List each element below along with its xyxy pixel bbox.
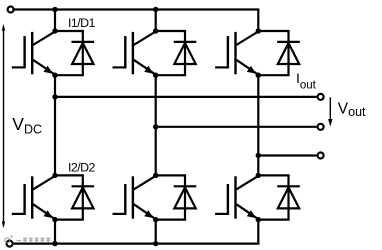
junction phase3 tap xyxy=(256,153,261,158)
Vout direction arrow xyxy=(329,97,331,120)
wire stub rail to I1 collector xyxy=(54,10,56,32)
junction leg3 lower collector node xyxy=(256,173,261,178)
diode D1 xyxy=(55,31,94,75)
wire stub leg2 emitter to bottom rail xyxy=(155,220,157,244)
diode D2 xyxy=(55,175,94,219)
junction leg3 collector node xyxy=(256,28,261,33)
wire stub rail to leg2 collector xyxy=(155,10,157,32)
junction I2 emitter node xyxy=(52,217,57,222)
VDC dimension arrow up xyxy=(2,24,5,31)
diode D5 xyxy=(258,31,300,75)
wire stub leg1 emitter to bottom rail xyxy=(54,220,56,244)
junction top rail leg2 xyxy=(153,7,158,12)
diode D3 xyxy=(156,31,197,75)
terminal DC+ xyxy=(8,7,14,13)
junction leg3 lower emitter node xyxy=(256,217,261,222)
svg-text:I1/D1: I1/D1 xyxy=(68,16,96,30)
junction bottom rail leg1 xyxy=(52,241,57,246)
VDC dimension arrow down xyxy=(2,222,5,229)
IGBT I6 xyxy=(215,176,258,219)
terminal phase 2 xyxy=(318,124,324,130)
wire bottom rail rise to leg3 xyxy=(257,220,259,244)
junction I2 collector node xyxy=(52,173,57,178)
terminal phase 3 xyxy=(318,153,324,159)
IGBT I2 xyxy=(12,176,55,219)
watermark xyxy=(5,236,50,243)
junction top rail leg1 xyxy=(52,7,57,12)
IGBT I5 xyxy=(215,32,258,75)
junction leg2 collector node xyxy=(153,28,158,33)
wire top DC rail xyxy=(14,8,260,10)
junction I1 collector node xyxy=(52,28,57,33)
IGBT I4 xyxy=(113,176,156,219)
wire leg2 midpoint vertical xyxy=(155,75,157,175)
junction I1 emitter node xyxy=(52,73,57,78)
terminal phase 1 xyxy=(318,94,324,100)
svg-text:I2/D2: I2/D2 xyxy=(68,161,96,175)
IGBT I1 xyxy=(12,32,55,75)
wire phase output 2 xyxy=(156,126,317,128)
junction phase2 tap xyxy=(153,124,158,129)
wire leg1 midpoint vertical xyxy=(54,75,56,175)
wire bottom DC rail xyxy=(13,243,260,245)
junction phase1 tap xyxy=(52,94,57,99)
junction leg2 lower emitter node xyxy=(153,217,158,222)
diode D4 xyxy=(156,175,197,219)
junction leg2 lower collector node xyxy=(153,173,158,178)
wire phase output 3 xyxy=(258,154,316,156)
junction bottom rail leg2 xyxy=(153,241,158,246)
diode D6 xyxy=(258,175,300,219)
wire top rail drop to leg3 xyxy=(257,10,259,32)
junction leg2 emitter node xyxy=(153,73,158,78)
VDC dimension line xyxy=(3,27,5,226)
IGBT I3 xyxy=(113,32,156,75)
wire leg3 midpoint vertical xyxy=(257,75,259,175)
wire phase output 1 xyxy=(55,96,317,98)
terminal DC- xyxy=(7,241,13,247)
junction leg3 emitter node xyxy=(256,73,261,78)
